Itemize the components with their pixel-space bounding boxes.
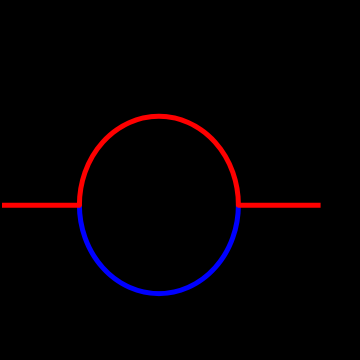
node A: left vertex: [77, 202, 82, 207]
wire: left external red line: [2, 203, 81, 208]
wire: blue lower loop arc: [79, 205, 238, 294]
node B: right vertex: [236, 202, 241, 207]
wire: right external red line: [238, 203, 321, 208]
wire: red upper loop arc: [79, 116, 238, 205]
